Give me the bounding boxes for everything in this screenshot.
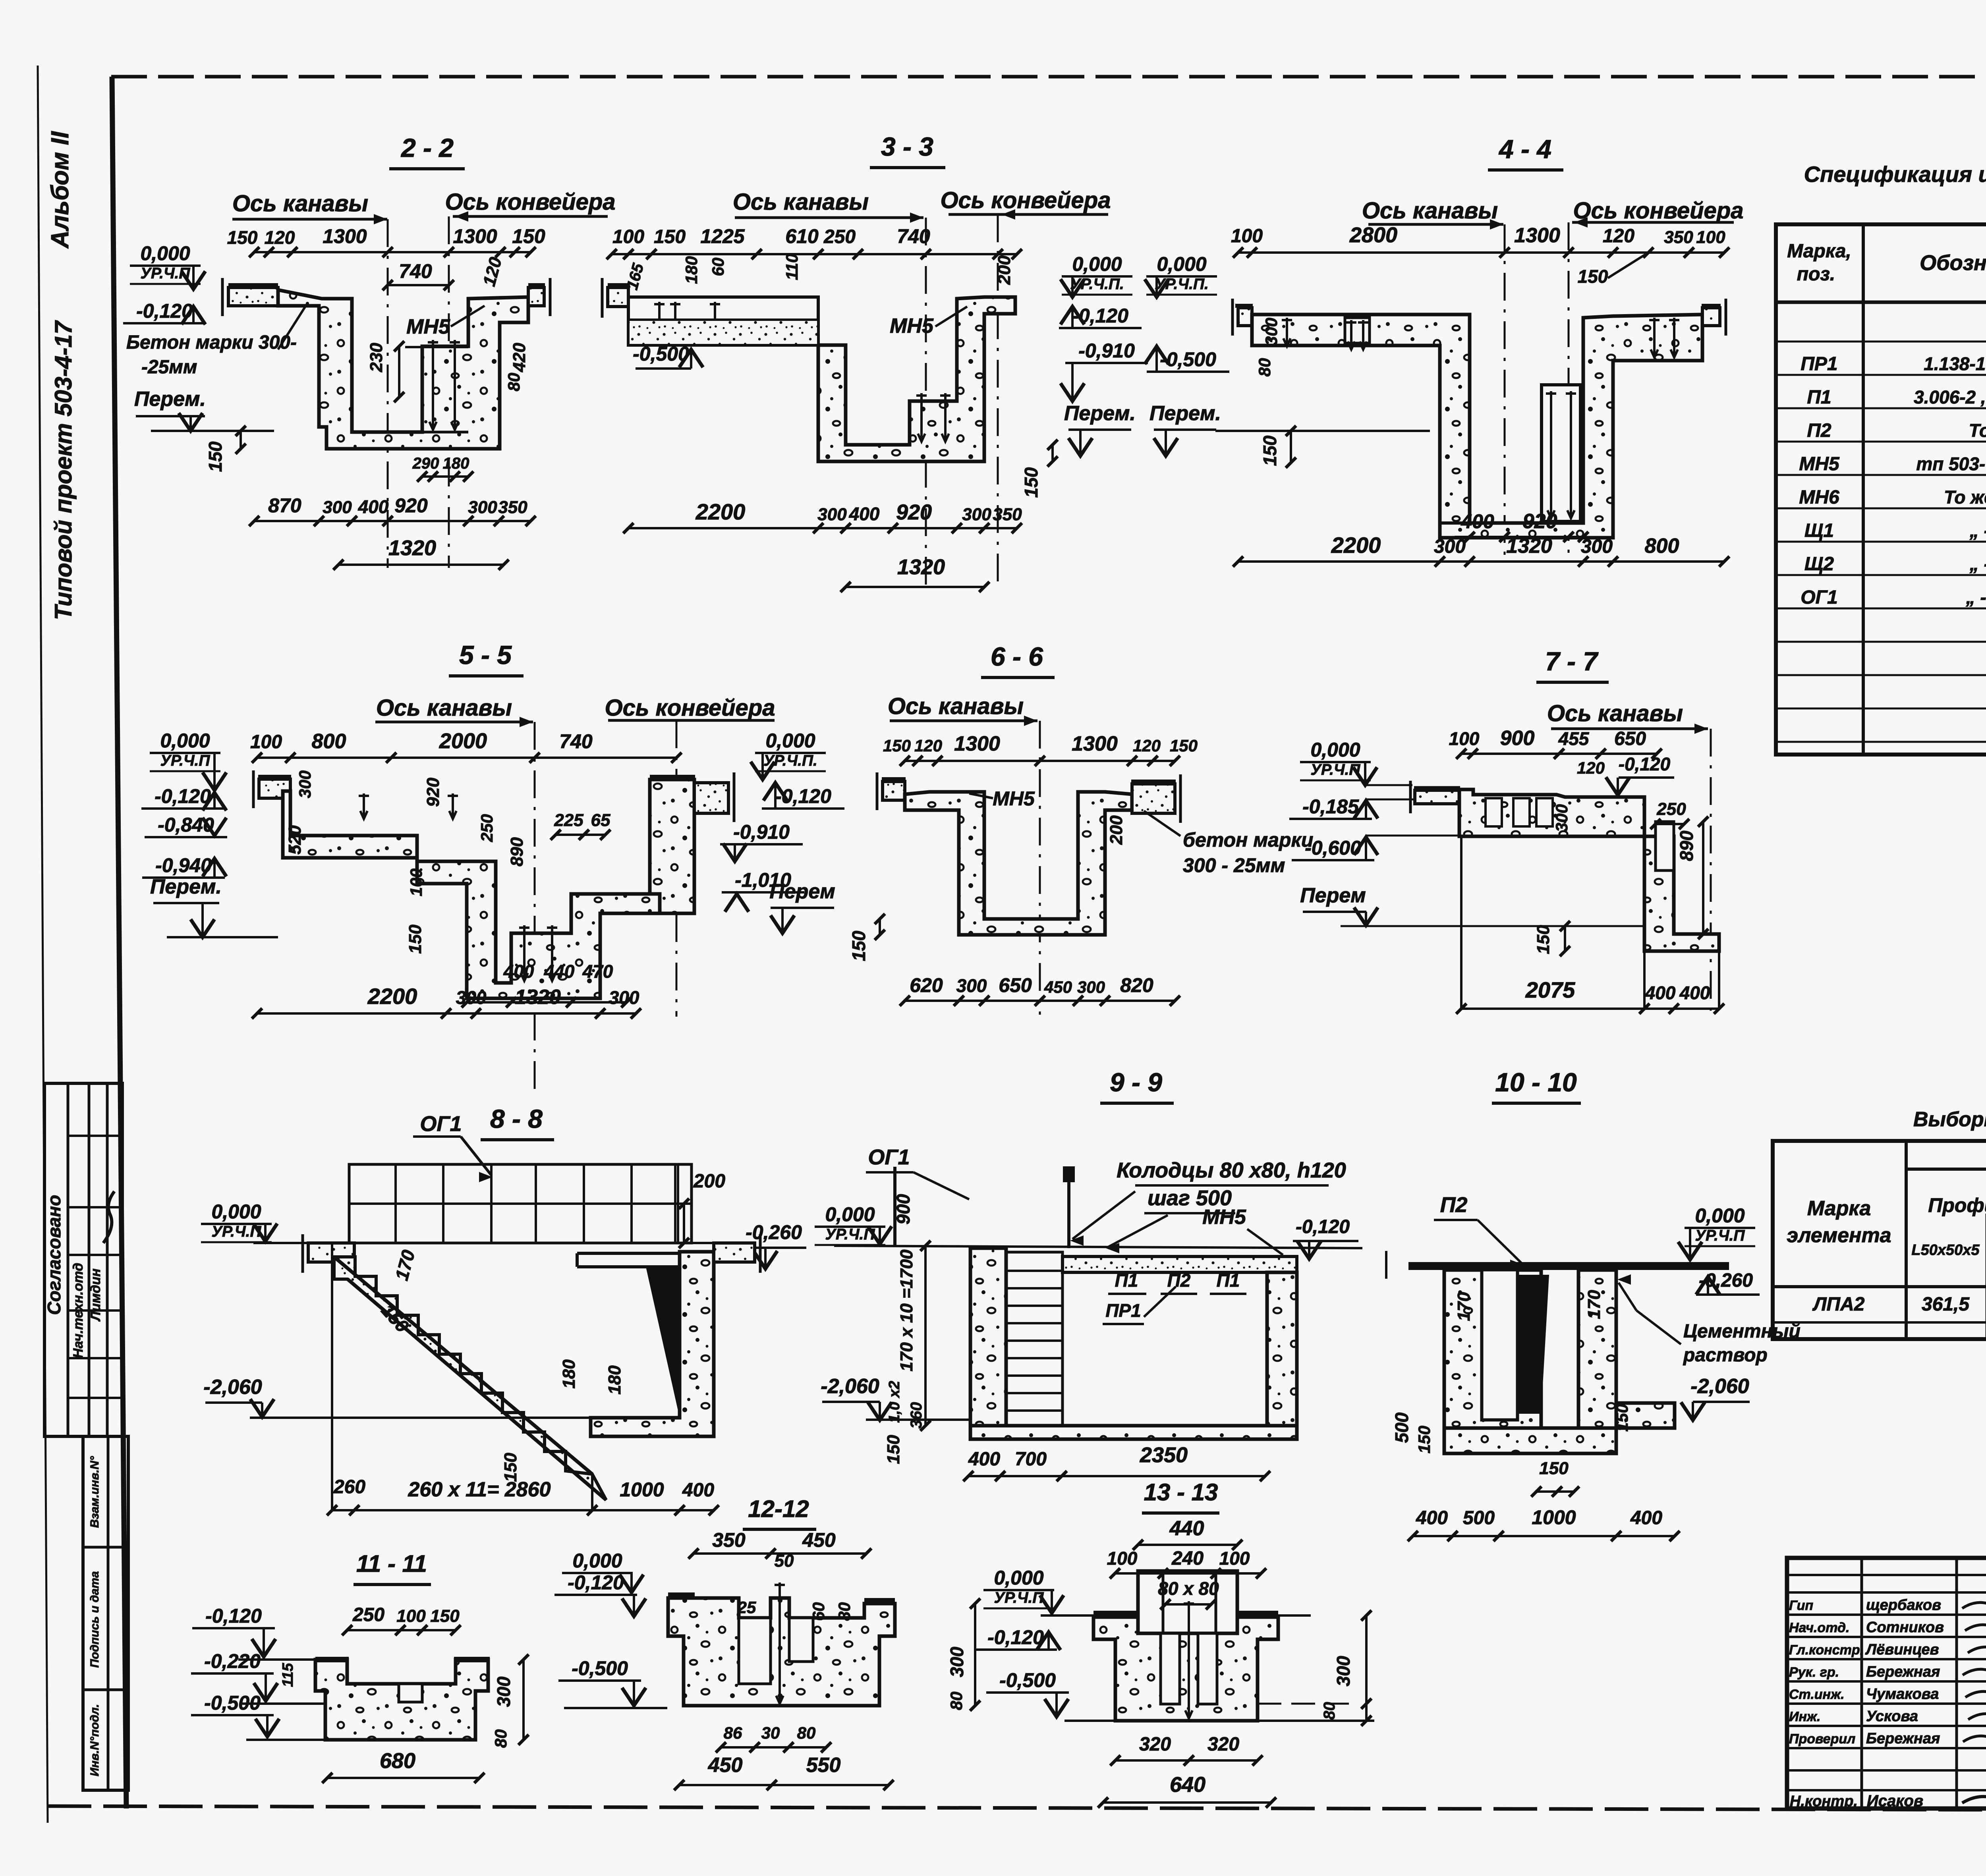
svg-text:740: 740 (897, 225, 930, 247)
svg-text:2200: 2200 (1331, 533, 1381, 558)
section 7-7 slab body (1459, 789, 1644, 836)
svg-text:300: 300 (323, 498, 352, 517)
svg-text:-0,185: -0,185 (1302, 795, 1359, 818)
section 4-4 concrete body (1252, 315, 1702, 538)
title block signature rows (1787, 1591, 1986, 1594)
svg-text:300: 300 (1434, 536, 1466, 557)
svg-text:80: 80 (491, 1729, 510, 1748)
svg-text:86: 86 (724, 1724, 742, 1742)
svg-text:300: 300 (468, 498, 497, 517)
svg-text:То же -МН6: То же -МН6 (1944, 487, 1986, 508)
svg-text:300: 300 (1077, 978, 1105, 996)
svg-text:Ось канавы: Ось канавы (733, 189, 869, 215)
section 7-7 left road strip (1415, 790, 1459, 804)
svg-text:3.006-2 , вып. 11-2: 3.006-2 , вып. 11-2 (1914, 387, 1986, 407)
section 8-8 right wall (591, 1252, 714, 1436)
svg-text:170: 170 (391, 1248, 419, 1283)
svg-text:10 - 10: 10 - 10 (1495, 1067, 1577, 1097)
svg-text:1000: 1000 (1532, 1506, 1576, 1529)
svg-text:Ось канавы: Ось канавы (1362, 198, 1498, 224)
svg-text:650: 650 (999, 974, 1032, 996)
svg-text:450: 450 (802, 1529, 836, 1551)
svg-text:Профильная сталь: Профильная сталь (1928, 1194, 1986, 1216)
svg-text:1300: 1300 (1514, 224, 1560, 247)
svg-text:100: 100 (612, 226, 644, 247)
section 2-2 pit inner line (352, 431, 468, 434)
svg-text:П1: П1 (1807, 387, 1831, 408)
svg-text:60: 60 (809, 1602, 828, 1621)
section 9-9 right wall (1267, 1272, 1297, 1426)
svg-text:Альбом II: Альбом II (46, 131, 74, 249)
section 8-8 railing grid (349, 1164, 692, 1243)
svg-text:320: 320 (1139, 1734, 1171, 1755)
svg-text:МН6: МН6 (1799, 487, 1839, 508)
section 3-3 berm slab channels (628, 297, 818, 345)
svg-text:Чумакова: Чумакова (1866, 1686, 1939, 1702)
svg-text:-0,500: -0,500 (572, 1657, 628, 1679)
svg-text:2000: 2000 (439, 729, 487, 753)
svg-text:350: 350 (1664, 228, 1693, 247)
svg-text:-2,060: -2,060 (821, 1375, 879, 1398)
svg-text:„ -Щ2: „ -Щ2 (1969, 554, 1986, 574)
svg-text:ПР1: ПР1 (1801, 353, 1837, 374)
svg-text:400: 400 (1461, 510, 1494, 533)
svg-text:50: 50 (775, 1551, 794, 1571)
section 12-12 concrete body (668, 1598, 895, 1706)
svg-text:1225: 1225 (700, 225, 745, 247)
border: bottom frame dashed line (48, 1806, 1986, 1811)
section 4-4 right slab pins (1653, 318, 1656, 357)
svg-text:100: 100 (407, 869, 425, 896)
svg-text:Проверил: Проверил (1789, 1731, 1855, 1747)
svg-text:0,000: 0,000 (160, 730, 210, 752)
section 13-13 ground line (1041, 1614, 1096, 1617)
svg-text:УР.Ч.П: УР.Ч.П (994, 1589, 1044, 1606)
svg-text:150: 150 (1613, 1404, 1631, 1432)
svg-text:тп 503- - АС-МН5: тп 503- - АС-МН5 (1916, 454, 1986, 474)
svg-text:100: 100 (250, 731, 282, 753)
section 5-5 right road strip (694, 783, 728, 813)
svg-text:1,0 x2: 1,0 x2 (886, 1381, 903, 1423)
svg-text:-2,060: -2,060 (1690, 1375, 1749, 1398)
svg-text:0,000: 0,000 (1072, 253, 1122, 275)
svg-text:Гл.констр.: Гл.констр. (1789, 1642, 1864, 1658)
section 13-13 concrete body (1093, 1617, 1278, 1721)
svg-text:180: 180 (559, 1359, 579, 1389)
svg-text:МН5: МН5 (406, 315, 450, 338)
svg-text:250: 250 (477, 814, 496, 842)
svg-text:455: 455 (1558, 728, 1590, 749)
svg-text:620: 620 (910, 974, 943, 996)
svg-text:Перем: Перем (769, 880, 835, 903)
svg-text:550: 550 (806, 1754, 841, 1777)
section 3-3 sump anchors (920, 393, 923, 442)
svg-text:Обозначение: Обозначение (1920, 251, 1986, 275)
svg-text:0,000: 0,000 (825, 1203, 875, 1226)
svg-text:150: 150 (205, 441, 226, 472)
svg-text:250: 250 (823, 226, 856, 247)
svg-text:L50x50x5: L50x50x5 (1911, 1242, 1980, 1258)
svg-text:300: 300 (1333, 1656, 1354, 1686)
section 4-4 sump (1542, 385, 1580, 521)
section 2-2 left road strip (228, 288, 278, 306)
section 11-11 concrete body (315, 1660, 488, 1740)
svg-text:300: 300 (296, 770, 314, 798)
svg-text:520: 520 (285, 825, 305, 855)
svg-text:1000: 1000 (620, 1478, 664, 1501)
section 8-8 right ceiling slab (577, 1252, 680, 1255)
svg-text:УР.Ч.П: УР.Ч.П (825, 1226, 875, 1243)
svg-text:100: 100 (1107, 1548, 1138, 1569)
svg-text:170: 170 (1584, 1290, 1604, 1319)
svg-text:УР.Ч.П: УР.Ч.П (212, 1223, 262, 1240)
svg-text:80: 80 (1255, 358, 1274, 377)
section 13-13 plinth (1138, 1571, 1237, 1633)
section 8-8 stair diagonal lines (334, 1257, 592, 1474)
svg-text:150: 150 (1260, 435, 1280, 466)
svg-text:150: 150 (654, 226, 686, 247)
svg-text:-0,260: -0,260 (746, 1221, 802, 1243)
svg-text:150: 150 (501, 1453, 520, 1482)
spec table row lines (1776, 341, 1986, 343)
svg-text:Ось конвейера: Ось конвейера (445, 189, 616, 215)
svg-text:11 - 11: 11 - 11 (356, 1550, 427, 1577)
svg-text:300: 300 (817, 505, 847, 524)
svg-text:Перем.: Перем. (1149, 402, 1221, 425)
section 5-5 right tall wall (650, 780, 694, 913)
svg-text:-0,120: -0,120 (568, 1571, 624, 1594)
svg-text:300: 300 (947, 1646, 967, 1677)
svg-text:420: 420 (510, 343, 529, 372)
svg-text:60: 60 (709, 258, 727, 276)
steel table data row (1773, 1285, 1986, 1288)
svg-text:100: 100 (1449, 728, 1480, 749)
svg-text:200: 200 (693, 1171, 725, 1192)
svg-text:УР.Ч.П.: УР.Ч.П. (763, 752, 817, 769)
svg-text:320: 320 (1207, 1734, 1239, 1755)
svg-text:0,000: 0,000 (994, 1567, 1043, 1589)
svg-text:П2: П2 (1440, 1193, 1468, 1217)
svg-text:Рук. гр.: Рук. гр. (1789, 1665, 1839, 1680)
svg-text:Исаков: Исаков (1867, 1792, 1923, 1810)
section 4-4 perem level line (1215, 430, 1430, 432)
svg-text:65: 65 (591, 811, 610, 830)
svg-text:7 - 7: 7 - 7 (1545, 647, 1599, 676)
section 7-7 slab channels (1486, 798, 1502, 826)
svg-text:500: 500 (1391, 1412, 1412, 1443)
svg-text:2200: 2200 (695, 499, 746, 524)
svg-text:Перем.: Перем. (1064, 402, 1136, 425)
svg-text:12-12: 12-12 (748, 1496, 809, 1522)
svg-text:740: 740 (399, 260, 432, 282)
svg-text:-0,600: -0,600 (1305, 837, 1361, 859)
section 2-2 concrete body (278, 290, 528, 449)
svg-text:Перем: Перем (1300, 884, 1366, 907)
section 9-9 top slab P1 P2 P1 (1063, 1256, 1297, 1272)
svg-text:150: 150 (1539, 1459, 1569, 1478)
svg-text:150: 150 (406, 924, 425, 954)
svg-text:8 - 8: 8 - 8 (490, 1104, 543, 1133)
svg-text:„ -Щ1: „ -Щ1 (1969, 520, 1986, 541)
svg-text:бетон марки: бетон марки (1183, 829, 1313, 851)
svg-text:Марка,: Марка, (1787, 241, 1851, 262)
svg-text:440: 440 (544, 961, 575, 982)
section 9-9 ground line (834, 1246, 1362, 1248)
svg-text:0,000: 0,000 (1157, 253, 1206, 275)
svg-text:1300: 1300 (954, 732, 1000, 755)
svg-text:361,5: 361,5 (1922, 1294, 1970, 1315)
section 5-5 left road strip (259, 779, 290, 798)
svg-text:920: 920 (896, 500, 932, 524)
svg-text:700: 700 (1015, 1449, 1047, 1470)
svg-text:Ось канавы: Ось канавы (1547, 701, 1683, 726)
section 10-10 right wall (1578, 1270, 1616, 1428)
svg-text:900: 900 (1500, 727, 1535, 750)
svg-text:0,000: 0,000 (1310, 739, 1360, 761)
svg-text:120: 120 (1603, 226, 1634, 247)
svg-text:870: 870 (268, 494, 301, 517)
steel table frame (1773, 1141, 1986, 1339)
svg-text:элемента: элемента (1787, 1224, 1891, 1247)
svg-text:ОГ1: ОГ1 (420, 1112, 462, 1136)
section 3-3 axis lines (925, 218, 927, 588)
svg-text:150: 150 (1578, 266, 1608, 287)
svg-text:Ось конвейера: Ось конвейера (605, 695, 775, 721)
section 2-2 axis lines (387, 219, 389, 568)
svg-text:-0,910: -0,910 (733, 821, 790, 843)
svg-text:2 - 2: 2 - 2 (400, 133, 454, 162)
border: outer left page edge line (38, 66, 48, 1823)
svg-text:щербаков: щербаков (1866, 1597, 1941, 1614)
svg-text:300: 300 (456, 987, 487, 1008)
section 5-5 sump anchors (523, 925, 525, 981)
svg-text:470: 470 (582, 961, 613, 982)
svg-text:300: 300 (956, 975, 987, 996)
svg-text:1.138-10 , вып.1: 1.138-10 , вып.1 (1924, 353, 1986, 374)
svg-text:2350: 2350 (1140, 1443, 1188, 1467)
svg-text:0,000: 0,000 (1695, 1204, 1745, 1227)
svg-text:400: 400 (1416, 1507, 1448, 1529)
section 3-3 left road strip (608, 288, 628, 307)
border: left frame line (112, 77, 126, 1808)
svg-text:25: 25 (737, 1598, 756, 1617)
svg-text:450: 450 (1044, 978, 1072, 996)
section 12-12 top dark bars (668, 1592, 695, 1599)
svg-text:890: 890 (507, 837, 527, 867)
svg-text:120: 120 (265, 227, 295, 248)
svg-text:ЛПА2: ЛПА2 (1812, 1294, 1865, 1315)
svg-text:400: 400 (849, 504, 880, 524)
svg-text:Ст.инж.: Ст.инж. (1789, 1687, 1845, 1702)
svg-text:180: 180 (605, 1365, 624, 1395)
svg-text:П2: П2 (1807, 420, 1831, 441)
svg-text:Ускова: Ускова (1866, 1708, 1918, 1725)
svg-text:Перем.: Перем. (150, 875, 222, 898)
section 9-9 left wall (970, 1248, 1006, 1426)
svg-text:13 - 13: 13 - 13 (1144, 1479, 1218, 1505)
svg-text:УР.Ч.П.: УР.Ч.П. (1070, 276, 1124, 293)
svg-text:2200: 2200 (367, 984, 417, 1009)
section 7-7 wall recess (1656, 822, 1674, 870)
svg-text:Нач.техн.отд: Нач.техн.отд (71, 1263, 86, 1358)
svg-text:920: 920 (1523, 510, 1557, 533)
svg-text:650: 650 (1614, 728, 1646, 749)
section 4-4 slab window (1345, 318, 1370, 343)
section 4-4 pit wall inner lines (1438, 345, 1441, 538)
svg-text:-0,120: -0,120 (987, 1626, 1044, 1648)
svg-text:150: 150 (430, 1606, 460, 1626)
svg-text:250: 250 (1656, 799, 1686, 819)
section 5-5 shallow floor pins (363, 793, 365, 819)
svg-text:Ось канавы: Ось канавы (376, 695, 512, 721)
svg-text:Н.контр.: Н.контр. (1790, 1793, 1858, 1810)
svg-text:ОГ1: ОГ1 (868, 1145, 910, 1169)
svg-text:300: 300 (962, 505, 991, 524)
svg-text:680: 680 (380, 1749, 415, 1773)
svg-text:450: 450 (708, 1754, 743, 1777)
svg-text:„ -ОГ1: „ -ОГ1 (1966, 587, 1986, 608)
svg-text:610: 610 (785, 225, 819, 247)
svg-text:240: 240 (1171, 1548, 1204, 1569)
svg-text:100: 100 (1219, 1548, 1250, 1569)
svg-text:Ось канавы: Ось канавы (888, 693, 1024, 719)
svg-text:4 - 4: 4 - 4 (1498, 134, 1551, 164)
svg-text:120: 120 (914, 736, 942, 755)
svg-text:360: 360 (908, 1402, 925, 1429)
svg-text:120: 120 (479, 255, 506, 288)
svg-text:-0,120: -0,120 (1619, 754, 1671, 774)
svg-text:0,000: 0,000 (211, 1200, 261, 1223)
svg-text:400: 400 (968, 1449, 1000, 1470)
svg-text:П1: П1 (1115, 1270, 1138, 1291)
svg-text:П1: П1 (1217, 1270, 1240, 1291)
svg-text:МН5: МН5 (993, 787, 1035, 810)
svg-text:400: 400 (1645, 982, 1676, 1003)
svg-text:300: 300 (493, 1676, 514, 1707)
border: top frame dashed line (111, 75, 1986, 79)
svg-text:740: 740 (559, 730, 593, 753)
svg-text:920: 920 (394, 494, 428, 517)
svg-text:400: 400 (358, 496, 389, 517)
svg-text:УР.Ч.П: УР.Ч.П (1311, 761, 1361, 778)
svg-text:900: 900 (893, 1194, 914, 1224)
spec table header row (1776, 301, 1986, 304)
svg-text:-0,910: -0,910 (1078, 340, 1135, 362)
svg-text:2075: 2075 (1525, 977, 1575, 1002)
svg-text:1320: 1320 (1506, 535, 1552, 558)
svg-text:170 x 10 =1700: 170 x 10 =1700 (897, 1249, 916, 1372)
svg-text:0,000: 0,000 (765, 730, 815, 752)
svg-text:120: 120 (1577, 759, 1605, 777)
svg-text:400: 400 (503, 961, 534, 982)
svg-text:400: 400 (1679, 982, 1710, 1003)
svg-text:МН5: МН5 (1799, 454, 1840, 475)
svg-text:Согласовано: Согласовано (44, 1195, 64, 1315)
svg-text:150: 150 (1021, 467, 1041, 498)
svg-text:230: 230 (367, 343, 386, 372)
svg-text:400: 400 (1630, 1507, 1662, 1529)
spec table frame (1776, 224, 1986, 755)
svg-text:80: 80 (835, 1602, 854, 1621)
svg-text:Лимдин: Лимдин (88, 1268, 103, 1322)
svg-text:2800: 2800 (1349, 223, 1397, 247)
svg-text:Цементный: Цементный (1683, 1321, 1801, 1342)
sidebar stamp box: Взам.инв / Подпись и дата / Инв N подл (83, 1436, 128, 1790)
section 10-10 dark wedge (1517, 1275, 1549, 1414)
signature squiggle in stamp (103, 1191, 114, 1243)
section 3-3 concrete body (818, 297, 1015, 461)
svg-text:200: 200 (995, 255, 1014, 285)
svg-text:500: 500 (1463, 1507, 1495, 1529)
section 13-13 channels (1161, 1633, 1180, 1704)
section 13-13 top dark bars (1093, 1611, 1138, 1617)
svg-text:Взам.инв.N°: Взам.инв.N° (88, 1456, 101, 1528)
svg-text:0,000: 0,000 (140, 242, 190, 264)
section 9-9 ladder (1006, 1252, 1063, 1426)
svg-text:1320: 1320 (515, 986, 561, 1009)
section 10-10 left wall (1444, 1270, 1541, 1428)
svg-text:-0,500: -0,500 (1160, 348, 1216, 371)
svg-text:150: 150 (512, 225, 545, 247)
sidebar stamp box: Согласовано (44, 1083, 122, 1436)
svg-text:640: 640 (1170, 1773, 1206, 1797)
svg-text:100: 100 (1231, 226, 1263, 247)
section 6-6 left road strip (883, 782, 905, 800)
svg-text:ПР1: ПР1 (1105, 1300, 1141, 1321)
svg-text:80 x 80: 80 x 80 (1158, 1578, 1219, 1599)
svg-text:3 - 3: 3 - 3 (881, 132, 933, 161)
svg-text:300 - 25мм: 300 - 25мм (1183, 854, 1285, 876)
svg-text:800: 800 (312, 730, 346, 753)
svg-text:300: 300 (609, 987, 639, 1008)
section 6-6 right block (1132, 784, 1175, 813)
section 8-8 left slab (308, 1243, 354, 1262)
svg-text:УР.Ч.П: УР.Ч.П (1695, 1227, 1745, 1244)
svg-text:150: 150 (884, 1435, 903, 1464)
svg-text:-0,120: -0,120 (1296, 1216, 1350, 1237)
svg-text:П2: П2 (1167, 1270, 1191, 1291)
svg-text:Щ1: Щ1 (1804, 520, 1834, 541)
svg-text:1320: 1320 (388, 536, 436, 560)
section 10-10 ground slab (1408, 1262, 1729, 1270)
svg-text:225: 225 (554, 811, 583, 830)
svg-text:350: 350 (712, 1529, 746, 1551)
svg-text:Марка: Марка (1807, 1197, 1871, 1220)
svg-text:ОГ1: ОГ1 (1801, 587, 1838, 608)
svg-text:150: 150 (848, 930, 869, 961)
svg-text:Типовой проект 503-4-17: Типовой проект 503-4-17 (50, 320, 77, 620)
svg-text:820: 820 (1120, 974, 1153, 996)
section 9-9 floor slab (970, 1426, 1297, 1439)
section 5-5 axis lines (534, 722, 536, 1096)
svg-text:Лёвинцев: Лёвинцев (1865, 1641, 1939, 1658)
section 4-4 left road strip (1238, 308, 1252, 326)
svg-text:300: 300 (1262, 318, 1281, 345)
svg-text:30: 30 (761, 1724, 780, 1742)
section 7-7 pit wall (1644, 836, 1719, 951)
svg-text:Гип: Гип (1789, 1598, 1813, 1613)
svg-text:350: 350 (498, 498, 527, 517)
svg-text:150: 150 (1534, 925, 1553, 954)
svg-text:Щ2: Щ2 (1804, 554, 1834, 575)
svg-text:Спецификация изделий на лини: Спецификация изделий на линию поточную Л… (1804, 162, 1986, 187)
svg-text:-0,220: -0,220 (204, 1650, 261, 1672)
svg-text:150: 150 (883, 736, 911, 755)
svg-text:УР.Ч.П.: УР.Ч.П. (1155, 276, 1209, 293)
svg-text:-0,500: -0,500 (633, 343, 689, 365)
svg-text:Инж.: Инж. (1789, 1709, 1820, 1724)
section 8-8 dark wedge (646, 1267, 680, 1418)
